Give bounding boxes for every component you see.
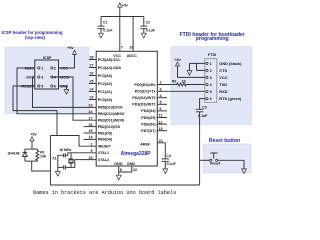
- AREF pin 21: [157, 142, 165, 144]
- pin 27 stub: [89, 67, 96, 69]
- svg-text:ICSP: ICSP: [43, 56, 52, 60]
- svg-text:PB2(D10)/SS: PB2(D10)/SS: [98, 125, 121, 129]
- svg-text:XTAL2: XTAL2: [98, 158, 109, 162]
- pin 13 stub: [157, 130, 167, 132]
- svg-text:C1: C1: [103, 21, 108, 25]
- pin 23 stub: [89, 99, 96, 101]
- ICSP ground: [59, 86, 67, 90]
- pin 15 stub: [84, 132, 97, 134]
- svg-text:1N4148: 1N4148: [7, 151, 19, 155]
- svg-text:2: 2: [210, 69, 212, 73]
- FTDI panel: [171, 47, 252, 125]
- wire MOSI to pin17: [52, 77, 96, 120]
- svg-text:XTAL1: XTAL1: [98, 151, 109, 155]
- svg-text:Reset: Reset: [210, 162, 221, 166]
- svg-text:PD2(D2)/INT0: PD2(D2)/INT0: [132, 96, 155, 100]
- pin 26 stub: [89, 75, 96, 77]
- svg-text:10K: 10K: [40, 154, 47, 158]
- +5v rail top: [101, 16, 144, 18]
- svg-text:2: 2: [54, 66, 56, 70]
- ground below C4: [163, 169, 168, 174]
- wire Rx with resistor R2 1K to FTDI TXD: [157, 83, 205, 86]
- svg-text:PD6(D6): PD6(D6): [141, 122, 156, 126]
- +5v arrow top: [119, 7, 121, 16]
- bottom join diode/R1: [25, 160, 38, 162]
- svg-text:26: 26: [89, 72, 93, 76]
- cap C on XTAL1: [58, 153, 66, 157]
- Reset button panel: [203, 144, 251, 173]
- svg-text:+5v: +5v: [174, 58, 181, 62]
- svg-text:5: 5: [41, 84, 43, 88]
- svg-text:AVCC: AVCC: [127, 54, 138, 58]
- capacitor C4: [162, 143, 169, 169]
- svg-text:GND (black): GND (black): [219, 61, 242, 66]
- svg-text:X1: X1: [52, 156, 56, 160]
- svg-text:PD4(D4): PD4(D4): [141, 109, 156, 113]
- FTDI header box: [205, 59, 217, 103]
- wire /RESET from ICSP to IC pin1: [13, 86, 57, 136]
- svg-text:PC2(A2): PC2(A2): [98, 82, 113, 86]
- resistor R1 10K: [36, 149, 39, 161]
- pin 20 AVCC stub: [132, 17, 134, 52]
- svg-text:21: 21: [159, 139, 163, 143]
- svg-text:PC5(A5)-SCL: PC5(A5)-SCL: [98, 58, 122, 62]
- svg-text:Atmega328P: Atmega328P: [121, 151, 152, 157]
- svg-text:C4: C4: [166, 154, 171, 158]
- svg-text:27: 27: [89, 64, 93, 68]
- diode D1 1N4148: [22, 149, 27, 161]
- ICSP pin circles left: [38, 67, 40, 69]
- svg-text:PC1(A1): PC1(A1): [98, 90, 113, 94]
- wire pullup to reset net: [32, 161, 51, 171]
- ground below C2: [141, 33, 146, 38]
- FTDI +5v to VCC: [178, 66, 205, 77]
- pin 11 stub: [157, 117, 167, 119]
- pin 4 stub: [157, 97, 167, 99]
- ICSP box: [35, 60, 59, 89]
- svg-text:6: 6: [210, 97, 212, 101]
- svg-text:16 MHz: 16 MHz: [59, 148, 71, 152]
- svg-text:CTS: CTS: [219, 68, 227, 73]
- crystal body: [69, 153, 74, 168]
- svg-text:PD1(D1)=Tx: PD1(D1)=Tx: [135, 89, 157, 93]
- svg-text:PC0(A0): PC0(A0): [98, 98, 113, 102]
- button to ground: [218, 160, 244, 169]
- wire MISO to pin18: [17, 68, 96, 114]
- svg-text:0.1uF: 0.1uF: [167, 162, 177, 166]
- FTDI GND+CTS to ground: [190, 63, 205, 70]
- svg-text:28: 28: [89, 56, 93, 60]
- svg-text:PB4(D12)/MISO: PB4(D12)/MISO: [98, 112, 125, 116]
- pin 28 stub: [89, 59, 96, 61]
- capacitor C1: [98, 17, 105, 34]
- svg-text:1K: 1K: [182, 79, 187, 83]
- svg-text:PD3(D3)/INT1: PD3(D3)/INT1: [132, 103, 155, 107]
- svg-text:RXD: RXD: [219, 89, 227, 94]
- svg-text:23: 23: [89, 96, 93, 100]
- wire reset net down to bottom rail: [50, 136, 199, 186]
- ICSP pin circles right: [51, 67, 53, 69]
- IC U1 ATmega328P body: [96, 51, 157, 166]
- svg-text:AREF: AREF: [140, 143, 151, 147]
- svg-text:FTDI: FTDI: [208, 53, 216, 57]
- svg-text:PD0(D0)=Rx: PD0(D0)=Rx: [134, 83, 156, 87]
- push button Reset: [210, 159, 212, 161]
- pin 12 stub: [157, 123, 167, 125]
- pin 24 stub: [89, 91, 96, 93]
- svg-text:PB5(D13)/SCK: PB5(D13)/SCK: [98, 106, 124, 110]
- svg-text:Names in brackets are Arduino: Names in brackets are Arduino Uno board …: [33, 190, 176, 196]
- pin 14 stub: [84, 138, 97, 140]
- svg-text:Reset button: Reset button: [209, 138, 240, 144]
- svg-text:PB3(D11)/MOSI: PB3(D11)/MOSI: [98, 119, 125, 123]
- cap C on XTAL2: [58, 165, 66, 169]
- ground line crystal caps: [57, 155, 59, 171]
- svg-text:C3: C3: [202, 106, 207, 110]
- svg-text:22: 22: [133, 168, 137, 172]
- reset button wire: [200, 159, 210, 161]
- crystal X1 16MHz: XTAL1 wire: [65, 153, 96, 156]
- top join diode/R1: [25, 148, 38, 150]
- svg-text:programming: programming: [196, 36, 229, 42]
- svg-text:+5v: +5v: [67, 46, 74, 50]
- svg-text:5: 5: [210, 90, 212, 94]
- svg-text:/RESET: /RESET: [98, 145, 112, 149]
- svg-text:0.1uF: 0.1uF: [146, 29, 156, 33]
- svg-text:6: 6: [54, 84, 56, 88]
- svg-text:25: 25: [89, 80, 93, 84]
- pin 7 VCC stub: [119, 17, 121, 52]
- FTDI RTS wire down to C3: [200, 99, 205, 110]
- svg-text:VCC: VCC: [219, 75, 227, 80]
- XTAL2 wire: [65, 160, 96, 168]
- svg-text:PB0(D8): PB0(D8): [98, 138, 113, 142]
- svg-text:20: 20: [129, 46, 133, 50]
- svg-text:PD5(D5): PD5(D5): [141, 116, 156, 120]
- svg-text:0.1uF: 0.1uF: [103, 29, 113, 33]
- pin 16 stub: [84, 126, 97, 128]
- pin 5 stub: [157, 103, 167, 105]
- svg-text:GND: GND: [114, 162, 123, 166]
- svg-text:R2: R2: [172, 79, 177, 83]
- ICSP panel: [5, 47, 89, 114]
- svg-text:PB1(D9): PB1(D9): [98, 131, 113, 135]
- svg-text:7: 7: [121, 46, 123, 50]
- svg-text:RTS (green): RTS (green): [219, 96, 242, 101]
- pin 6 stub: [157, 110, 167, 112]
- svg-text:PC3(A3): PC3(A3): [98, 74, 113, 78]
- svg-text:3: 3: [159, 87, 161, 91]
- svg-text:3: 3: [210, 76, 212, 80]
- wire Tx to FTDI RXD: [157, 90, 205, 92]
- FTDI pin circles and numbers: [206, 62, 208, 64]
- svg-text:GND: GND: [127, 162, 136, 166]
- wire SCK to pin19: [33, 77, 97, 107]
- ground below pin8: [118, 172, 120, 175]
- svg-text:1: 1: [210, 62, 212, 66]
- svg-text:8: 8: [120, 168, 122, 172]
- capacitor C3: [196, 109, 203, 185]
- svg-text:+5v: +5v: [122, 3, 129, 7]
- capacitor C2: [140, 17, 147, 34]
- svg-text:3: 3: [41, 75, 43, 79]
- svg-text:PD7(D7): PD7(D7): [141, 129, 156, 133]
- svg-text:C2: C2: [146, 21, 151, 25]
- svg-text:PC4(A4)-SDA: PC4(A4)-SDA: [98, 66, 122, 70]
- svg-text:(top view): (top view): [25, 35, 46, 40]
- svg-text:+5v: +5v: [30, 132, 37, 136]
- pin 25 stub: [89, 83, 96, 85]
- ground below C1: [99, 33, 104, 38]
- svg-text:TXD: TXD: [219, 82, 227, 87]
- ICSP +5v arrow: [59, 54, 75, 68]
- svg-text:0.1uF: 0.1uF: [198, 114, 208, 118]
- svg-text:1: 1: [41, 66, 43, 70]
